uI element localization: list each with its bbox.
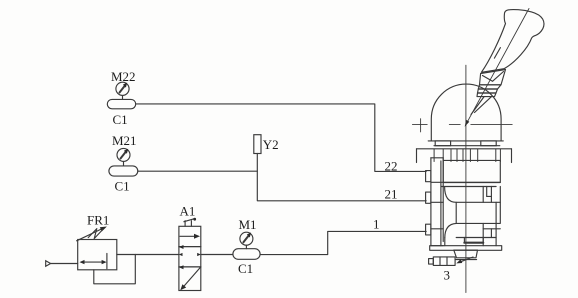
svg-text:M1: M1: [239, 217, 257, 232]
exhaust muffler port 3: [433, 257, 455, 266]
svg-text:C1: C1: [238, 261, 253, 276]
axis arrow tip: [465, 120, 470, 127]
port stub 22: [426, 171, 431, 182]
handle collar nut: [480, 70, 506, 85]
svg-text:FR1: FR1: [87, 213, 109, 228]
regulator FR1: [77, 213, 117, 270]
mid shelf line: [441, 186, 496, 188]
handle boot bellows: [477, 85, 501, 97]
gauge M1: [239, 217, 257, 249]
wire M21 to Y2 junction: [138, 170, 257, 172]
position box 2: [179, 247, 201, 267]
muffler C1 (under M22): [107, 99, 135, 127]
muffler C1 (under M1): [233, 249, 260, 276]
wire FR1 to A1: [117, 254, 179, 256]
gauge M21: [112, 133, 137, 166]
plate stems: [434, 149, 500, 162]
wire M22 to valve port 22: [136, 104, 427, 171]
port marks: [179, 245, 184, 249]
bottom flange: [430, 246, 502, 251]
grip surface dash: [494, 48, 500, 59]
joystick valve: dome: [428, 84, 503, 146]
left column: [430, 158, 432, 246]
svg-text:1: 1: [373, 217, 380, 232]
wire muffler to valve port 1: [260, 231, 426, 254]
position box 3: [179, 267, 201, 291]
horizontal centerline: [412, 119, 512, 132]
dome feet: [435, 141, 450, 146]
gauge M22: [111, 69, 136, 99]
valve A1: [179, 204, 201, 291]
svg-text:22: 22: [385, 158, 398, 173]
drain arrow: [460, 257, 474, 262]
rounded step upper: [445, 187, 457, 203]
top block: [443, 160, 500, 182]
bottom right cells: [482, 223, 484, 245]
svg-text:Y2: Y2: [263, 137, 279, 152]
svg-text:M21: M21: [112, 133, 137, 148]
mounting plate: [417, 149, 512, 163]
adjustment spring arrow: [77, 228, 103, 240]
FR1 feedback pilot loop: [94, 255, 136, 284]
port stub 1: [426, 224, 431, 235]
wire A1 to muffler C1: [201, 254, 233, 256]
bottom center cell: [464, 238, 483, 243]
source (air supply triangle): [46, 261, 78, 267]
handle stem: [465, 97, 492, 127]
internal flow arrow: [82, 261, 105, 263]
vertical centerline: [465, 65, 467, 292]
lever actuator: [184, 221, 186, 227]
port stub 21: [426, 192, 431, 203]
joystick valve: handle grip: [481, 10, 544, 73]
position box 1: [179, 226, 201, 246]
svg-text:A1: A1: [180, 204, 196, 219]
solenoid Y2: [254, 135, 279, 154]
svg-text:3: 3: [444, 267, 451, 282]
handle axis line: [466, 9, 529, 125]
svg-text:C1: C1: [113, 112, 128, 127]
svg-text:C1: C1: [115, 179, 130, 194]
wire Y2 to valve port 21: [257, 154, 426, 201]
valve body: [426, 158, 502, 266]
middle block: [456, 202, 500, 223]
muffler C1 (under M21): [109, 166, 138, 194]
rounded step lower: [445, 223, 456, 237]
center fitting: [454, 250, 478, 258]
right posts: [482, 187, 484, 203]
svg-text:21: 21: [385, 187, 398, 202]
